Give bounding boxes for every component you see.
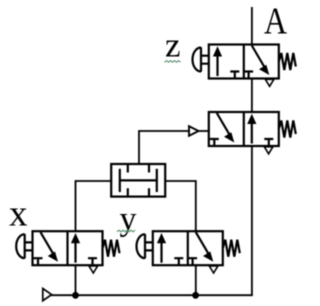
valve z divider: [243, 45, 245, 79]
wire y valve output up to AND valve right input: [165, 181, 196, 232]
AND valve shuttle rod: [120, 179, 157, 181]
wire supply rail: [51, 294, 253, 296]
valve x left box blocked port: [34, 258, 43, 265]
valve pilot-operated (3/2, middle): [189, 112, 296, 154]
valve z exhaust triangle: [265, 79, 274, 86]
valve y push button: [144, 234, 146, 258]
valve y return spring: [223, 240, 240, 257]
pilot valve left box blocked port: [210, 139, 219, 146]
AND valve left seat stubs: [127, 165, 129, 196]
AND valve right seat stubs: [148, 165, 150, 196]
valve x body: [33, 231, 103, 265]
valve y left box flow arrow: [160, 241, 162, 263]
valve z return spring: [279, 53, 296, 70]
junction dot x-branch/rail: [72, 292, 79, 299]
pilot valve right box blocked port: [264, 139, 273, 146]
valve x (3/2 push-button, bottom left): [16, 231, 119, 273]
pilot valve left box vent path: [217, 113, 231, 136]
pneumatic source triangle: [43, 289, 52, 301]
valve x return spring: [103, 240, 120, 257]
svg-text:z: z: [165, 26, 181, 65]
valve y exhaust triangle: [209, 266, 218, 273]
valve z left box flow arrow: [216, 55, 218, 77]
wire AND valve output to pilot input: [139, 131, 189, 165]
pilot valve return spring: [279, 121, 296, 138]
valve z (3/2 push-button, top): [193, 45, 296, 87]
valve x divider: [66, 231, 68, 265]
svg-text:x: x: [9, 194, 28, 235]
junction dot y-branch/rail: [192, 292, 199, 299]
squiggle under y: [117, 230, 135, 232]
valve z body: [209, 45, 279, 79]
valve y left box blocked port: [174, 258, 183, 265]
svg-text:A: A: [264, 1, 287, 43]
valve y right box vent path: [196, 232, 210, 255]
AND valve left end plate: [119, 169, 121, 192]
wire z valve supply to pilot valve output: [251, 79, 253, 113]
valve y right box blocked port: [188, 258, 197, 265]
valve x right box blocked port: [88, 258, 97, 265]
pilot valve right box flow arrow: [251, 122, 253, 144]
valve x exhaust triangle: [89, 266, 98, 273]
pilot valve pilot triangle: [189, 126, 199, 136]
two-pressure AND valve body: [111, 164, 165, 197]
squiggle under z: [165, 61, 181, 63]
valve z push button: [200, 47, 202, 71]
wire A output (top): [251, 7, 253, 45]
pilot valve divider: [243, 112, 245, 146]
pilot valve body: [209, 112, 279, 146]
valve y body: [153, 231, 223, 265]
valve y (3/2 push-button, bottom middle): [137, 231, 240, 273]
svg-text:y: y: [120, 201, 137, 238]
AND valve right end plate: [156, 169, 158, 192]
valve z right box vent path: [252, 46, 265, 69]
wire y valve supply down to rail: [195, 265, 197, 295]
wire x valve supply down to rail: [75, 266, 77, 296]
valve x left box vent path: [41, 232, 55, 255]
wire pilot valve supply down to rail: [251, 146, 253, 295]
valve y divider: [187, 231, 189, 265]
valve x right box flow arrow: [74, 241, 76, 263]
wire x valve output up to AND valve left input: [76, 181, 112, 232]
valve x push button: [24, 234, 26, 258]
pilot valve exhaust triangle: [264, 147, 273, 154]
valve z right box blocked port: [244, 72, 253, 79]
valve z left box blocked port: [230, 72, 239, 79]
